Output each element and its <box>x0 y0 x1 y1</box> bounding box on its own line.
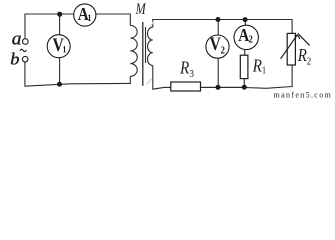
wire: V1 bottom stub <box>59 58 61 85</box>
label b <box>10 49 19 68</box>
wire: V2 top stub <box>217 20 219 36</box>
wire: left loop top from terminal a up and right to A1 <box>25 14 74 38</box>
junction dot: V1 bottom node <box>57 82 62 87</box>
svg-text:manfen5.com: manfen5.com <box>274 90 333 99</box>
junction dot: R1 bottom node <box>242 85 247 90</box>
label R1 <box>252 56 267 76</box>
inductor L2: transformer secondary coil (3 bumps) <box>147 27 152 65</box>
ammeter A1 <box>74 4 96 26</box>
junction dot: V2 top node <box>216 17 221 22</box>
label M (transformer) <box>135 2 147 19</box>
faint watermark stroke near secondary coil bottom <box>147 79 153 85</box>
svg-text:M: M <box>135 2 147 19</box>
wire: primary coil bottom, left loop bottom, up to terminal b <box>25 62 130 86</box>
voltmeter V2 <box>206 35 229 58</box>
label a <box>12 29 22 49</box>
wire: V2 bottom stub <box>217 58 219 87</box>
faint watermark stroke near secondary top <box>149 22 155 28</box>
label ~ (ac source mark) <box>20 49 26 51</box>
svg-text:a: a <box>12 29 22 49</box>
inductor L1: transformer primary coil (4 bumps) <box>130 25 137 76</box>
wire: A2 top stub <box>244 20 246 26</box>
voltmeter V1 <box>47 35 70 58</box>
resistor R1 (box) <box>240 55 248 78</box>
junction dot: V1 top node <box>57 12 62 17</box>
svg-text:b: b <box>10 49 19 68</box>
junction dot: A2 top node <box>243 17 248 22</box>
terminal b circle <box>22 56 28 62</box>
wire: top between A1 and primary coil, corner down <box>96 14 130 25</box>
label R2 <box>297 46 312 68</box>
ammeter A2 <box>234 25 258 49</box>
transformer core (right bar) <box>145 27 147 63</box>
rheostat R2 arrow shaft <box>281 35 298 59</box>
transformer core (left bar) <box>142 22 144 86</box>
junction dot: V2 bottom node <box>216 85 221 90</box>
wire: V1 top stub <box>59 14 61 35</box>
wire: A2 to R1 stub <box>244 50 246 56</box>
rheostat R2 leader line <box>298 33 310 45</box>
rheostat R2 arrowhead <box>295 35 300 39</box>
resistor R3 (box) <box>171 82 201 91</box>
wire: right loop bottom from R2 bottom to secondary bottom <box>153 65 292 89</box>
rheostat R2 (box) <box>287 33 295 65</box>
wire: secondary top to right loop top and down right edge to R2 <box>153 20 292 34</box>
label R3 <box>179 58 194 80</box>
wire: R1 bottom stub <box>243 79 245 88</box>
terminal a circle <box>23 39 29 45</box>
